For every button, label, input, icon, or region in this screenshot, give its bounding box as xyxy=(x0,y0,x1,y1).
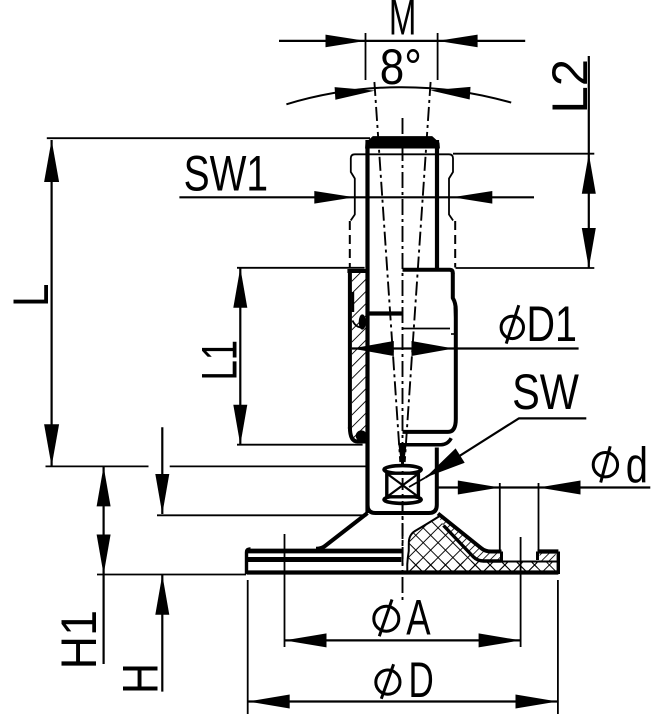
plate sheet strip right of hole xyxy=(540,554,556,562)
svg-text:L2: L2 xyxy=(543,59,599,114)
hidden (dashed) edges below hex xyxy=(349,221,351,268)
svg-text:H1: H1 xyxy=(51,610,107,669)
tilt line right (8 deg) xyxy=(405,82,431,462)
ball square X cross xyxy=(388,474,418,496)
dim D: extension lines xyxy=(247,580,249,714)
svg-text:8°: 8° xyxy=(380,38,422,94)
tilt line left (8 deg) xyxy=(374,82,400,462)
dim d: extension lines xyxy=(499,483,501,550)
spindle top cap xyxy=(366,137,440,148)
svg-text:d: d xyxy=(626,437,648,493)
svg-text:SW1: SW1 xyxy=(184,145,269,202)
ball pivot: bottom ellipse xyxy=(384,496,421,504)
sleeve outer right edge with crimp jog xyxy=(403,273,456,432)
dim M: extension lines xyxy=(365,33,367,80)
mounting hole bottom xyxy=(482,561,557,563)
plate top right of hole xyxy=(538,549,559,553)
dim SW: leader xyxy=(426,418,587,477)
base plate right edge xyxy=(557,552,560,575)
dim d: label xyxy=(593,453,617,477)
spindle left edge / sleeve inner wall / housing left edge xyxy=(365,140,369,513)
mounting hole left edge xyxy=(500,552,503,562)
crimp bead lower left xyxy=(356,430,367,441)
dim L2: line xyxy=(588,56,590,268)
base cone left slant xyxy=(316,513,368,549)
ball housing right edge + bottom with rounded corners xyxy=(368,448,437,514)
sleeve rolled lip bottom edge (right, outside view) xyxy=(406,438,451,445)
svg-text:H: H xyxy=(112,663,168,694)
dim H: extension line (housing bottom) xyxy=(157,514,367,516)
dim A: line xyxy=(285,639,521,641)
cone sheet outer surface (section right) xyxy=(438,514,502,552)
step line right half xyxy=(403,328,451,330)
crimp bead upper left xyxy=(359,314,366,329)
svg-text:D: D xyxy=(409,653,434,709)
base plate top edge (band1) xyxy=(247,549,404,554)
rubber pad edge line (band2) xyxy=(247,557,402,562)
dim SW1: leaders xyxy=(179,196,534,198)
centerline xyxy=(402,118,404,600)
hex collar SW1 outline xyxy=(351,154,368,220)
dim L1: line xyxy=(239,268,241,445)
dim L1: extension lines xyxy=(237,267,365,269)
dim 8deg: arc xyxy=(286,87,511,104)
ball pivot square SW xyxy=(387,473,419,497)
ball centerline xyxy=(402,455,404,565)
dim H1 / H: ground extension line xyxy=(97,574,246,576)
cone sheet section hatch xyxy=(438,514,502,562)
sleeve wall hatch (section) xyxy=(352,273,366,440)
svg-text:SW: SW xyxy=(512,363,579,420)
sleeve top edge right (outside view) xyxy=(403,270,453,274)
spindle end step (section, left half) xyxy=(366,311,403,315)
dim A: extension lines xyxy=(284,534,286,647)
dim L: extension line top xyxy=(47,137,370,139)
sleeve bottom left (section) xyxy=(350,427,366,442)
dim L: line xyxy=(50,140,52,466)
hole right step xyxy=(536,552,539,561)
dim L / H1: extension line (spindle end level) xyxy=(46,465,149,467)
section break (wavy) line xyxy=(407,516,440,572)
dim M: line and arrows xyxy=(279,40,366,42)
ball pivot: top ellipse xyxy=(384,466,421,474)
dim L2: extension lines xyxy=(453,153,594,155)
tilt convergence wedge xyxy=(398,443,407,466)
spindle right edge xyxy=(435,140,439,270)
rubber pad cross-hatch (section) xyxy=(407,516,556,571)
crimp pocket arc xyxy=(353,321,365,328)
diameter symbol D1 xyxy=(501,316,523,338)
svg-text:A: A xyxy=(406,590,431,646)
dim D: label xyxy=(376,670,400,694)
dim H: line xyxy=(161,427,163,514)
sleeve outer left edge xyxy=(348,271,352,429)
base plate bottom edge (band3) xyxy=(247,570,559,574)
dim D: line xyxy=(248,700,558,702)
dim A: label xyxy=(374,606,399,631)
svg-text:L: L xyxy=(2,284,58,307)
dim d: line and arrows xyxy=(438,486,651,488)
svg-text:D1: D1 xyxy=(527,296,577,353)
sleeve (section) top edge left xyxy=(347,269,369,273)
dim H1: line xyxy=(102,466,104,664)
dim D1: line xyxy=(352,347,579,349)
base plate left edge xyxy=(247,549,251,574)
crimp nub right edge xyxy=(453,300,457,318)
cone sheet inner surface xyxy=(444,526,502,562)
crimp groove bar left wall xyxy=(352,292,355,312)
